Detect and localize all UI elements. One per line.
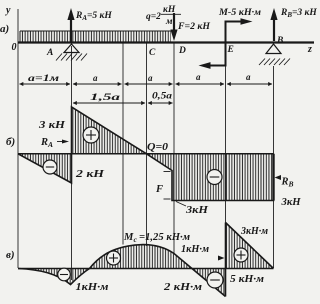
svg-text:D: D [178,46,186,56]
svg-text:A: A [46,48,53,58]
svg-text:B: B [276,36,283,46]
svg-text:a: a [93,73,98,83]
svg-text:q=2: q=2 [146,12,161,22]
svg-text:0: 0 [12,42,17,53]
svg-text:0,5a: 0,5a [152,91,173,101]
svg-text:F: F [155,184,163,195]
svg-text:м: м [165,17,173,27]
svg-text:F=2 кН: F=2 кН [177,22,211,32]
svg-text:1кН·м: 1кН·м [181,244,209,255]
svg-text:a: a [196,72,201,82]
svg-text:RB=3 кН: RB=3 кН [280,8,317,19]
svg-text:C: C [149,48,156,58]
svg-text:Q=0: Q=0 [147,142,169,153]
svg-text:б): б) [6,136,15,148]
svg-text:3кН: 3кН [280,197,301,208]
svg-text:M-5 кН·м: M-5 кН·м [218,8,262,18]
svg-text:RA=5 кН: RA=5 кН [75,11,112,22]
svg-text:3кН: 3кН [185,205,209,216]
svg-text:a: a [246,72,251,82]
svg-text:2 кН·м: 2 кН·м [163,282,202,293]
svg-text:3 кН: 3 кН [38,120,66,131]
svg-text:3кН·м: 3кН·м [240,226,268,237]
svg-text:=1,25 кН·м: =1,25 кН·м [139,232,190,243]
svg-text:кН: кН [163,5,176,15]
svg-text:1,5a: 1,5a [90,92,121,102]
svg-text:y: y [5,5,11,16]
svg-text:a=1м: a=1м [28,73,59,83]
svg-text:2 кН: 2 кН [75,169,105,180]
svg-text:а): а) [0,23,9,35]
svg-text:5 кН·м: 5 кН·м [230,274,264,285]
svg-text:z: z [307,44,312,55]
svg-text:1кН·м: 1кН·м [76,282,109,293]
svg-text:E: E [227,45,234,55]
svg-text:в): в) [6,249,15,261]
svg-text:M: M [123,232,134,243]
svg-text:a: a [148,73,153,83]
